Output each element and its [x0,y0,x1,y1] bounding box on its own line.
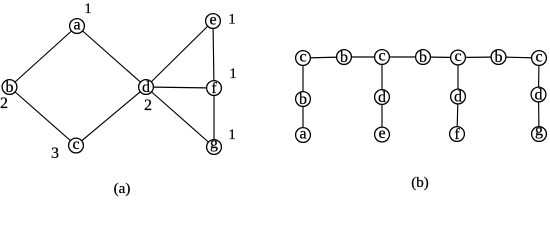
node b hanging under c1 [296,92,311,107]
edge c1-b(hang) [302,58,304,99]
edge c4-d4 [538,58,541,95]
svg-text:d: d [378,89,386,106]
svg-text:c: c [72,136,79,153]
svg-text:a: a [299,126,306,143]
node g (graph a) [207,140,222,155]
edge a-b [10,26,78,87]
svg-text:d: d [535,87,543,104]
svg-text:d: d [454,89,462,106]
svg-text:g: g [535,122,543,139]
svg-text:1: 1 [228,127,236,143]
svg-text:1: 1 [228,12,236,28]
svg-text:b: b [6,79,14,96]
edge c3-d3 [457,58,459,97]
edge b1-c2 [344,56,382,58]
node c2 (graph b) [375,50,390,65]
svg-text:2: 2 [144,97,152,114]
node e (graph a) [206,14,221,29]
edge d-g [146,87,214,147]
svg-text:b: b [340,49,348,66]
node f hanging under d3 [450,127,465,142]
edge f-g [213,88,215,147]
node c (graph a) [69,138,84,153]
svg-text:c: c [378,48,385,65]
node b (graph a) [2,80,17,95]
edge e-f [213,21,214,88]
node c3 (graph b) [451,50,466,65]
svg-text:b: b [419,49,427,66]
svg-text:c: c [454,48,461,65]
node f (graph a) [207,81,222,96]
edge c-d [76,87,146,146]
edge d3-f(hang) [457,97,458,135]
svg-text:f: f [454,126,460,143]
edge d4-g(hang) [538,95,541,135]
svg-text:1: 1 [229,66,237,82]
edge b3-c4 [499,57,540,58]
svg-text:b: b [495,49,503,66]
node d (graph a) [139,80,154,95]
edge d2-e(hang) [381,97,383,135]
node c4 (graph b) [532,51,547,66]
svg-text:f: f [211,80,217,97]
edge a-d [77,26,146,87]
svg-text:e: e [209,12,216,29]
edge d-f [146,87,214,88]
edge b(hang)-a(hang) [302,99,304,135]
node e hanging under d2 [375,127,390,142]
svg-text:a: a [73,17,80,34]
svg-text:c: c [535,49,542,66]
node b1 (graph b) [337,50,352,65]
svg-text:b: b [299,91,307,108]
node g hanging under d4 [532,127,547,142]
edge b2-c3 [423,56,458,59]
node d4 hanging under c4 [531,87,546,102]
svg-text:(a): (a) [114,181,131,197]
svg-text:2: 2 [0,95,8,112]
svg-text:(b): (b) [411,175,429,191]
node d3 hanging under c3 [451,89,466,104]
svg-text:e: e [378,125,385,142]
node c1 (graph b) [296,51,311,66]
svg-text:1: 1 [84,1,92,17]
node a hanging under b [296,128,311,143]
node b2 (graph b) [416,50,431,65]
svg-text:c: c [299,49,306,66]
node d2 hanging under c2 [375,90,390,105]
edge b-c [10,87,77,146]
edge c1-b1 (graph b top row) [303,57,344,58]
svg-text:g: g [210,135,218,152]
node a (graph a) [70,19,85,34]
edge c2-b2 [382,56,423,58]
edge c3-b3 [458,56,499,59]
edge c2-d2 [381,57,383,97]
node b3 (graph b) [491,50,506,65]
svg-text:d: d [142,79,150,96]
edge d-e [146,21,213,87]
svg-text:3: 3 [51,145,59,162]
